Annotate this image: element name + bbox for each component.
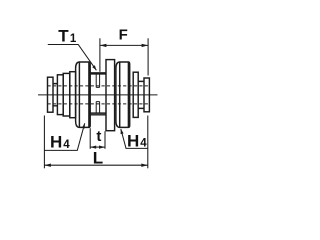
svg-text:L: L — [93, 148, 103, 167]
svg-text:t: t — [96, 128, 101, 145]
svg-text:F: F — [119, 27, 128, 44]
svg-text:4: 4 — [140, 138, 147, 150]
svg-text:H: H — [50, 133, 62, 152]
svg-text:4: 4 — [63, 139, 70, 151]
svg-text:H: H — [127, 131, 139, 150]
svg-text:1: 1 — [70, 33, 77, 45]
svg-text:T: T — [58, 27, 69, 46]
